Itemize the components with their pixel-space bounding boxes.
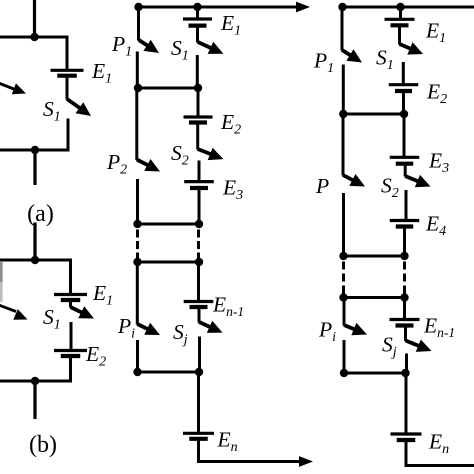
battery En (middle) (183, 433, 214, 439)
right top wire (340, 6, 474, 9)
battery E1 (b) (54, 295, 87, 301)
right rung3 wire (342, 255, 407, 258)
battery E2 (b) (54, 351, 87, 357)
circuit (a) node/junction dot top (30, 33, 38, 41)
wire rung4 to battery En-1 (right) (403, 298, 406, 320)
wire battery E2 to rung2 (right) (402, 91, 405, 116)
switch S2 blade (right) (405, 175, 430, 187)
switch S1 (a) blade (67, 99, 91, 116)
switch P2 blade (middle) (137, 159, 160, 172)
circuit (a) top wire (0, 36, 69, 39)
middle rung3 wire (136, 223, 201, 226)
circuit (b) junction dot top (31, 256, 39, 264)
switch P2 top lead (middle) (135, 88, 138, 160)
circuit (b) left switch arrow (cut off) (0, 304, 28, 320)
circuit (a) junction dot bottom (31, 146, 39, 154)
svg-text:(b): (b) (29, 432, 57, 458)
right dashed wire right (403, 262, 406, 294)
circuit (b) top stub wire (33, 223, 36, 262)
switch P1 blade (middle) (139, 40, 159, 53)
middle rung4 wire (136, 261, 201, 264)
switch Pi blade (right) (344, 323, 367, 335)
battery E3 (middle) (184, 182, 214, 188)
circuit (b) bottom wire (0, 380, 72, 383)
switch Sj blade (middle) (199, 321, 223, 333)
wire battery E2(b) to bottom (69, 356, 72, 383)
right rung5 dot left (340, 369, 348, 377)
switch S1 (b) blade (69, 300, 72, 308)
battery E3 (right) (390, 157, 420, 163)
wire battery E1 to switch S1 (middle) (196, 26, 199, 43)
switch S1 blade (right) (400, 42, 424, 54)
svg-text:P: P (315, 174, 329, 198)
middle rung2 dot left (134, 84, 142, 92)
circuit (b) right branch wire down (69, 259, 72, 295)
switch Sj bottom contact (right) (405, 354, 408, 375)
switch S2 bottom contact (middle) (198, 161, 201, 183)
right rung4 dot left (339, 293, 347, 301)
switch P blade (right) (343, 174, 365, 187)
switch P bottom contact (right) (342, 193, 345, 258)
wire battery E3 to rung3 (middle) (198, 188, 201, 226)
switch Pi blade (middle) (137, 323, 160, 335)
switch Pi bottom contact (right) (343, 340, 346, 375)
wire rung5 to battery En (middle) (197, 372, 200, 434)
switch S2 bottom contact (right) (405, 190, 408, 221)
wire battery En to bottom (right) (405, 440, 408, 467)
circuit (b) junction dot bottom (31, 377, 39, 385)
wire battery E1 to switch S1 (right) (398, 25, 401, 44)
circuit (a) top stub wire (33, 0, 36, 39)
switch P1 top lead (right) (341, 7, 344, 51)
switch S1 bottom contact (middle) (196, 55, 199, 90)
battery En-1 (middle) (184, 302, 214, 308)
right rung5 wire (343, 372, 408, 375)
middle rung3 dot right (195, 220, 203, 228)
wire battery E3 to switch S2 (right) (404, 164, 407, 177)
battery E1 (a) (51, 70, 84, 75)
middle bottom output wire (197, 460, 300, 463)
svg-text:(a): (a) (27, 201, 54, 227)
switch P1 blade (right) (342, 49, 362, 62)
battery E2 (right) (389, 85, 419, 91)
switch Sj bottom contact (middle) (198, 337, 201, 374)
circuit (a) bottom wire (0, 149, 70, 152)
middle rung3 dot left (133, 220, 141, 228)
middle top output arrowhead (296, 2, 310, 13)
grey scan artifact (b) (0, 262, 3, 302)
middle dashed wire left (136, 230, 139, 261)
middle rung4 dot left (133, 258, 141, 266)
switch Pi top lead (middle) (136, 262, 139, 325)
right dashed wire left (342, 262, 345, 294)
middle rung2 dot right (194, 84, 202, 92)
right rung2 wire (342, 113, 406, 116)
switch S1 bottom contact (right) (402, 62, 405, 85)
middle node dot rung1 left (134, 3, 142, 11)
middle bottom output arrowhead (299, 456, 313, 467)
switch Pi top lead (right) (343, 298, 346, 326)
right rung4 dot right (400, 293, 408, 301)
wire battery En to bottom (middle) (197, 439, 200, 463)
wire rung2 to battery E3 (right) (403, 114, 406, 158)
wire battery E1(a) to switch S1(a) (66, 76, 69, 100)
middle node dot rung1 right (193, 3, 201, 11)
switch P top lead (right) (342, 114, 345, 176)
right rung2 dot right (400, 110, 408, 118)
wire battery E2 to switch S2 (middle) (196, 123, 199, 150)
battery E2 (middle) (184, 117, 213, 123)
switch P1 top lead (middle) (137, 7, 140, 41)
wire battery En-1 to switch Sj (right) (404, 326, 407, 342)
switch S1 (b) bottom contact wire (70, 322, 73, 351)
switch P1 bottom contact (middle) (136, 52, 139, 90)
middle rung5 wire (136, 371, 201, 374)
switch S1 blade (middle) (198, 42, 224, 54)
wire battery E4 to rung3 (right) (403, 227, 406, 258)
right rung5 dot right (401, 369, 409, 377)
right rung3 dot left (339, 252, 347, 260)
middle top output wire (136, 6, 297, 9)
battery E4 (right) (390, 221, 420, 227)
wire rung4 to battery En-1 (middle) (197, 262, 200, 302)
circuit (a) right branch wire down to battery (66, 36, 69, 71)
circuit (b) top wire (0, 259, 72, 262)
middle rung2 wire (137, 87, 201, 90)
middle dashed wire right (197, 230, 200, 261)
right node dot rung1 right (396, 3, 404, 11)
middle rung5 dot right (195, 368, 203, 376)
right node dot rung1 left (338, 3, 346, 11)
switch P2 bottom contact (middle) (136, 179, 139, 226)
right bottom output wire (405, 464, 474, 467)
right rung4 wire (342, 296, 407, 299)
circuit (a) left switch arrow (cut off) (0, 82, 26, 94)
battery E1 (right) (385, 19, 415, 25)
right rung2 dot left (339, 110, 347, 118)
middle rung4 dot right (195, 258, 203, 266)
wire battery En-1 to switch Sj (middle) (198, 307, 201, 323)
circuit (a) bottom stub wire (33, 150, 36, 185)
wire rung1 to battery E1 (middle) (196, 7, 199, 19)
battery En-1 (right) (390, 320, 420, 326)
middle rung5 dot left (133, 368, 141, 376)
battery E1 (middle) (183, 19, 212, 26)
wire rung5 to battery En (right) (405, 373, 408, 434)
switch P1 bottom contact (right) (342, 65, 345, 116)
switch Sj blade (right) (406, 340, 432, 352)
switch S1 (a) bottom contact wire (67, 119, 70, 152)
battery En (right) (391, 434, 422, 440)
circuit (b) bottom stub wire (33, 381, 36, 419)
wire rung2 to battery E2 (middle) (197, 88, 200, 117)
wire rung1 to battery E1 (right) (399, 7, 402, 19)
right rung3 dot right (400, 252, 408, 260)
switch Pi bottom contact (middle) (136, 340, 139, 374)
switch S2 blade (middle) (198, 148, 224, 160)
